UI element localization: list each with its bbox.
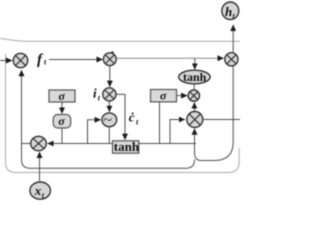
output h_t (222, 2, 239, 20)
label c-dot t (129, 109, 139, 126)
tanh output ellipse (179, 70, 210, 84)
wire: riser into output mix mult (170, 120, 185, 144)
svg-text:tanh: tanh (183, 70, 207, 84)
svg-text:ċ: ċ (129, 109, 135, 124)
svg-text:σ: σ (59, 89, 66, 103)
sigma activation rounded (53, 114, 70, 128)
wire: sigma E riser (159, 102, 161, 144)
svg-text:tanh: tanh (114, 139, 140, 154)
wire: branch down into tanh ellipse (194, 58, 196, 69)
wire: cell line to output mult (116, 57, 223, 59)
dot above update node (111, 51, 113, 53)
wire: recurrent loop bottom-right to output-mix input (195, 66, 234, 161)
label i_t (93, 86, 101, 103)
wire: candidate down tee (108, 127, 110, 144)
output mult X7 top right (225, 53, 238, 66)
wire: riser into candidate (88, 120, 101, 144)
cell update node X2 (103, 53, 116, 66)
sigma gate box E (151, 89, 177, 103)
wire: sigma E to output gate mult (177, 95, 188, 97)
wire: sigma box to sigma round (61, 102, 63, 113)
outer cell boundary (0, 38, 240, 172)
svg-text:x: x (34, 183, 42, 198)
svg-text:σ: σ (160, 89, 167, 103)
wire: tanh ellipse to gate mult (193, 84, 195, 90)
wire: mix output to left vertical (22, 143, 31, 145)
output gate mult X5 (188, 90, 199, 101)
wire: sigma down tee (61, 128, 63, 144)
wire: tanh line into mix mult (48, 143, 196, 145)
wire: update node down to input mult (109, 66, 111, 87)
wire: cell line to update node (49, 59, 103, 61)
wire: into forget mult from below (21, 70, 23, 143)
wire: input mult branch to tanh box (116, 94, 125, 139)
wire: output to next cell (203, 119, 240, 121)
wire: recurrent loop bottom-left (22, 144, 195, 169)
forget mult X1 (13, 53, 27, 67)
candidate node tilde (102, 112, 117, 129)
wire: cell state input from left (0, 60, 12, 62)
wire: output mult up to h (232, 25, 234, 53)
input x_t (30, 182, 51, 200)
tanh activation box (113, 139, 140, 154)
wire: x input up into mix (39, 152, 41, 181)
wire: between gate mults (193, 103, 195, 112)
label f_t (37, 52, 47, 68)
svg-text:h: h (225, 4, 232, 19)
sigma gate box W (49, 89, 75, 103)
svg-text:σ: σ (58, 114, 65, 128)
output mix mult X6 (187, 112, 203, 128)
svg-text:i: i (93, 86, 97, 101)
wire: input mult down to candidate (108, 101, 110, 112)
svg-text:~: ~ (103, 112, 112, 129)
input mix mult X4 (31, 136, 47, 150)
input gate mult X3 (103, 88, 116, 101)
